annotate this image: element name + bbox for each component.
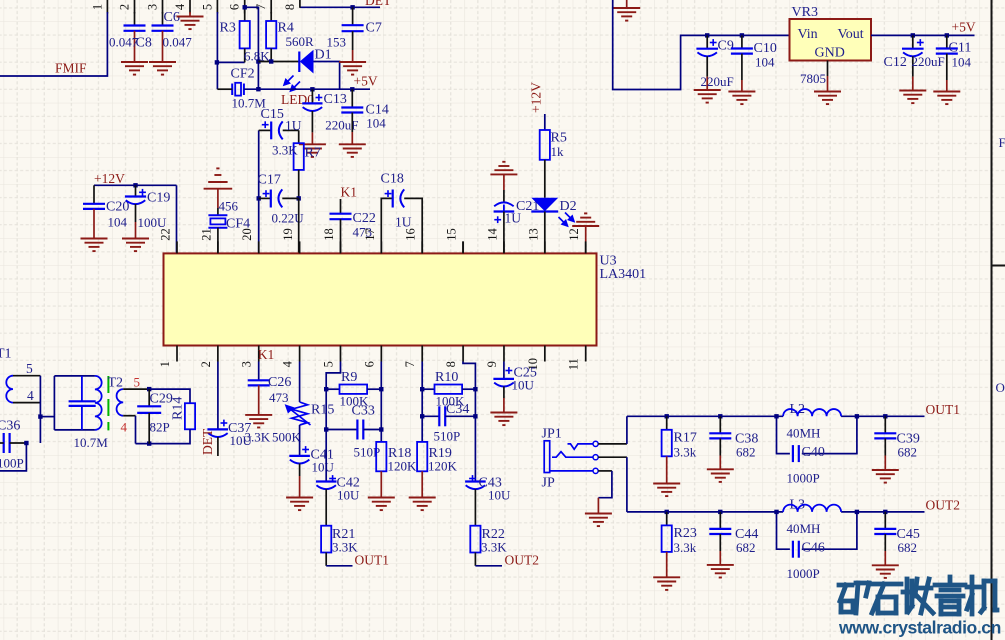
ground (C12) — [899, 91, 926, 104]
transformer T1 primary winding — [6, 376, 13, 403]
svg-text:OUT2: OUT2 — [926, 498, 961, 513]
svg-text:3: 3 — [240, 361, 254, 367]
wire pin2 down — [217, 362, 219, 429]
svg-text:12: 12 — [567, 228, 581, 241]
ground (JP1) — [585, 514, 612, 527]
svg-text:153: 153 — [327, 35, 347, 50]
svg-text:104: 104 — [366, 116, 386, 131]
ground (R18) — [368, 498, 395, 511]
svg-text:+12V: +12V — [529, 82, 544, 113]
wire input loop to VR3 — [613, 0, 790, 90]
ground (C7) — [339, 62, 366, 75]
wire CF4 top — [217, 189, 219, 208]
svg-text:+5V: +5V — [354, 74, 378, 89]
svg-text:C26: C26 — [268, 375, 291, 390]
node pin6 junction — [243, 5, 247, 9]
wire T1 left vertical — [39, 376, 41, 443]
svg-text:C15: C15 — [261, 107, 284, 122]
svg-text:C46: C46 — [802, 541, 825, 556]
ceramic filter CF4 — [208, 215, 227, 228]
JP1 sleeve line — [550, 470, 594, 472]
capacitor C46 bypass loop — [774, 510, 778, 514]
svg-text:C11: C11 — [949, 41, 972, 56]
svg-text:C17: C17 — [258, 173, 281, 188]
wire pin6 down — [380, 362, 382, 442]
capacitor C19 — [133, 183, 137, 187]
capacitor C18 — [381, 198, 392, 253]
ground (pin12, flipped) — [572, 213, 599, 226]
sheet boundary line (right edge) — [991, 0, 993, 640]
svg-text:R3: R3 — [220, 21, 236, 36]
svg-text:5: 5 — [134, 375, 141, 390]
svg-text:FMIF: FMIF — [55, 61, 87, 76]
svg-text:3.3K: 3.3K — [481, 540, 507, 555]
svg-text:JP1: JP1 — [542, 427, 562, 442]
svg-text:0.047: 0.047 — [163, 35, 193, 50]
wire VR3 GND pin — [827, 61, 829, 77]
diode D2 (LED) — [531, 198, 558, 212]
svg-text:104: 104 — [108, 215, 128, 230]
capacitor C11 — [945, 33, 949, 37]
ground (C39) — [872, 470, 899, 483]
connector JP1 body — [544, 441, 550, 473]
svg-text:K1: K1 — [258, 347, 275, 362]
ground (C19) — [122, 239, 149, 252]
capacitor C33 — [324, 427, 328, 431]
svg-text:OUT1: OUT1 — [355, 553, 390, 568]
svg-text:C6: C6 — [164, 10, 180, 25]
ground (C11) — [933, 92, 960, 105]
svg-text:456: 456 — [219, 199, 239, 214]
svg-text:2: 2 — [199, 361, 213, 367]
wire pin8 branch — [463, 362, 475, 482]
wire D2 to pin13 — [544, 212, 546, 254]
svg-text:C8: C8 — [136, 36, 152, 51]
svg-text:C34: C34 — [446, 402, 469, 417]
svg-text:OUT1: OUT1 — [926, 402, 961, 417]
wire pin4 down — [299, 362, 301, 403]
svg-text:C40: C40 — [802, 445, 825, 460]
svg-text:510P: 510P — [434, 429, 461, 444]
svg-text:1k: 1k — [551, 144, 565, 159]
svg-text:682: 682 — [736, 445, 756, 460]
svg-text:Vout: Vout — [838, 27, 864, 42]
svg-text:+12V: +12V — [94, 171, 125, 186]
svg-text:D2: D2 — [560, 199, 577, 214]
svg-text:5: 5 — [321, 361, 335, 367]
svg-text:C36: C36 — [0, 419, 20, 434]
U3 top pin numbers 22-12 — [159, 228, 582, 241]
LED D2 emission arrows — [559, 213, 575, 227]
wire to T1 tank — [40, 416, 54, 418]
svg-text:10U: 10U — [312, 460, 335, 475]
variable resistor R15 (500K) — [286, 402, 311, 425]
resistor R17 — [665, 414, 669, 418]
svg-text:LED0: LED0 — [281, 92, 314, 107]
wire pin8 to DET — [300, 6, 380, 8]
svg-text:R15: R15 — [311, 403, 334, 418]
svg-text:6: 6 — [228, 4, 242, 10]
svg-text:1: 1 — [90, 4, 104, 10]
svg-text:473: 473 — [269, 390, 289, 405]
svg-text:R17: R17 — [674, 431, 697, 446]
IC U3 LA3401 — [164, 253, 597, 345]
svg-text:7805: 7805 — [800, 71, 826, 86]
svg-text:22: 22 — [159, 228, 173, 241]
svg-text:3.3K: 3.3K — [272, 143, 298, 158]
svg-text:16: 16 — [404, 228, 418, 241]
capacitor C25 — [503, 362, 505, 379]
ground (VR3) — [814, 92, 841, 105]
ground (C26) — [245, 415, 272, 428]
svg-text:1: 1 — [158, 361, 172, 367]
diode D1 (LED) — [299, 50, 313, 74]
wire pin1 to FMIF — [0, 12, 107, 76]
svg-text:104: 104 — [952, 55, 972, 70]
svg-text:OUT2: OUT2 — [505, 553, 540, 568]
svg-text:220uF: 220uF — [325, 118, 358, 133]
svg-text:10U: 10U — [337, 488, 360, 503]
svg-text:1000P: 1000P — [787, 566, 820, 581]
svg-text:220uF: 220uF — [701, 74, 734, 89]
wire C36 down-left — [0, 443, 26, 471]
svg-text:JP: JP — [542, 476, 555, 491]
resistor R4 — [270, 12, 272, 21]
svg-text:DET: DET — [365, 0, 392, 8]
node pin5/R3 junction — [215, 60, 219, 64]
ground (R17) — [653, 484, 680, 497]
wire LED0 rail — [217, 88, 232, 90]
wire R14 bottom loop — [136, 429, 191, 443]
wire pin6 to CF2 right — [245, 7, 259, 89]
regulator VR3 7805 — [790, 19, 872, 61]
node C36 junction — [24, 441, 28, 445]
pin numbers 1-8 — [90, 3, 297, 10]
svg-text:682: 682 — [898, 540, 918, 555]
wire +12V rail — [94, 184, 177, 186]
ground (C20) — [81, 239, 108, 252]
LED D1 emission arrows — [284, 76, 300, 92]
svg-text:8: 8 — [283, 4, 297, 10]
U3 bottom pin numbers 1-11 — [158, 358, 581, 371]
svg-text:R9: R9 — [341, 370, 357, 385]
svg-text:CF2: CF2 — [231, 67, 255, 82]
wire R4 bottom to D1 — [258, 61, 299, 63]
wire JP1 tip to OUT1 rail — [598, 443, 627, 445]
svg-text:R7: R7 — [305, 146, 321, 161]
capacitor C39 — [883, 414, 887, 418]
svg-text:3.3K: 3.3K — [245, 430, 271, 445]
svg-text:40MH: 40MH — [787, 521, 821, 536]
svg-text:82P: 82P — [150, 420, 170, 435]
ground (C44) — [707, 565, 734, 578]
ground (top, under cut wire) — [626, 0, 628, 8]
svg-text:C19: C19 — [147, 191, 170, 206]
svg-text:10.7M: 10.7M — [74, 435, 109, 450]
svg-text:2: 2 — [118, 4, 132, 10]
svg-text:3.3k: 3.3k — [674, 445, 697, 460]
capacitor C13 — [310, 87, 314, 91]
svg-text:DET: DET — [200, 428, 215, 455]
svg-text:C12: C12 — [884, 55, 907, 70]
ground (C21, flipped) — [490, 162, 517, 175]
svg-text:9: 9 — [485, 361, 499, 367]
wire JP1 ring to OUT2 rail — [598, 456, 627, 458]
svg-text:18: 18 — [322, 228, 336, 241]
svg-text:C33: C33 — [352, 404, 375, 419]
capacitor C20 — [93, 185, 95, 204]
wire to OUT2 label — [475, 565, 502, 567]
JP1 contact circles — [593, 441, 598, 473]
svg-text:+5V: +5V — [952, 20, 976, 35]
wire T2 bottom corner — [135, 416, 137, 444]
svg-text:6: 6 — [362, 361, 376, 367]
svg-text:T1: T1 — [0, 347, 12, 362]
svg-text:21: 21 — [199, 228, 213, 241]
capacitor C26 — [258, 362, 260, 381]
resistor R19 — [417, 442, 427, 471]
ground (R19) — [409, 498, 436, 511]
svg-text:15: 15 — [445, 228, 459, 241]
svg-text:1000P: 1000P — [787, 471, 820, 486]
svg-text:104: 104 — [755, 55, 775, 70]
svg-text:4: 4 — [27, 388, 34, 403]
svg-text:C29: C29 — [150, 392, 173, 407]
capacitor C42 — [316, 480, 337, 482]
wire T2 top to R14 — [149, 389, 190, 403]
svg-text:C7: C7 — [366, 21, 382, 36]
capacitor C7 — [352, 7, 354, 25]
svg-text:C9: C9 — [718, 39, 734, 54]
T1 pin 5 lead — [13, 375, 40, 377]
svg-text:F: F — [999, 135, 1005, 150]
resistor R3 — [244, 8, 246, 21]
capacitor C43 — [465, 480, 486, 482]
wire OUT2 rail — [627, 511, 783, 513]
capacitor C15 — [259, 129, 272, 131]
svg-text:4: 4 — [281, 360, 295, 367]
node C29 bottom — [147, 441, 151, 445]
capacitor C6 — [162, 12, 164, 26]
ground (pin4) — [177, 17, 204, 30]
ground (R23) — [653, 577, 680, 590]
capacitor C21 — [503, 174, 505, 190]
svg-text:560R: 560R — [286, 34, 315, 49]
wire CF4 to pin21 — [217, 228, 219, 254]
svg-text:100P: 100P — [0, 456, 24, 471]
resistor R21 — [321, 526, 331, 553]
svg-text:17: 17 — [363, 228, 377, 241]
resistor R18 — [376, 442, 386, 471]
wire pin15 stub — [462, 241, 464, 253]
ground (C45) — [872, 565, 899, 578]
svg-text:GND: GND — [815, 46, 845, 61]
svg-text:120K: 120K — [388, 459, 418, 474]
resistor R9 — [324, 387, 328, 391]
T1 pin 4 lead — [13, 402, 40, 404]
wire pin5 down — [216, 12, 218, 89]
node T1 junction — [38, 414, 42, 418]
capacitor C17 — [257, 196, 261, 200]
capacitor C40 bypass loop — [774, 414, 778, 418]
svg-text:120K: 120K — [428, 459, 458, 474]
T2 core (green dashed) — [107, 376, 109, 430]
capacitor C9 — [705, 33, 709, 37]
svg-text:C18: C18 — [381, 172, 404, 187]
svg-text:5: 5 — [26, 361, 33, 376]
svg-text:T2: T2 — [108, 376, 124, 391]
ground (C41) — [286, 498, 313, 511]
wire pin20 up — [258, 130, 260, 253]
T2 bottom lead — [123, 415, 135, 417]
svg-text:10U: 10U — [512, 378, 535, 393]
capacitor C22 — [340, 199, 342, 214]
ceramic filter CF2 — [232, 83, 244, 96]
IC U2 pin stubs (cut off at top edge) — [107, 0, 271, 14]
svg-text:O: O — [996, 380, 1005, 395]
node R4/D1 wire crossing — [256, 59, 260, 63]
capacitor C29 — [148, 389, 150, 406]
svg-text:www.crystalradio.cn: www.crystalradio.cn — [838, 618, 1001, 638]
resistor R22 — [470, 526, 480, 553]
capacitor C8 — [134, 12, 136, 26]
wire pin5 branch — [326, 362, 340, 482]
resistor R14 — [185, 403, 195, 429]
T1 secondary winding — [95, 376, 102, 430]
svg-text:500K: 500K — [272, 430, 302, 445]
T1 tank capacitor — [81, 376, 83, 401]
transformer T2 winding — [117, 389, 124, 416]
ground (C25) — [490, 413, 517, 426]
U3 top pin stubs — [177, 241, 586, 253]
svg-text:D1: D1 — [315, 48, 332, 63]
capacitor C45 — [883, 510, 887, 514]
svg-text:11: 11 — [567, 358, 581, 370]
svg-text:R23: R23 — [674, 526, 697, 541]
svg-text:1U: 1U — [395, 215, 412, 230]
resistor R7 — [298, 130, 300, 143]
svg-text:40MH: 40MH — [787, 426, 821, 441]
node C29 top — [147, 387, 151, 391]
ground (C38) — [707, 469, 734, 482]
svg-text:Vin: Vin — [798, 27, 818, 42]
JP1 ring contact spring — [552, 452, 593, 458]
wire pin12 — [585, 226, 587, 242]
svg-text:0.047: 0.047 — [109, 35, 139, 50]
svg-text:13: 13 — [526, 228, 540, 241]
wire pin7 down — [421, 362, 423, 442]
ground (top-right) — [613, 8, 640, 21]
node R4/D1 junction — [269, 59, 273, 63]
wire pin19 — [298, 198, 300, 253]
svg-text:20: 20 — [240, 228, 254, 241]
ground (C14) — [339, 144, 366, 157]
ground (C6) — [149, 62, 176, 75]
node C7 junction — [350, 5, 354, 9]
capacitor C44 — [718, 510, 722, 514]
svg-text:1U: 1U — [505, 211, 522, 226]
svg-text:682: 682 — [736, 540, 756, 555]
svg-text:R10: R10 — [435, 370, 458, 385]
capacitor C41 — [289, 455, 310, 457]
svg-text:14: 14 — [485, 228, 499, 241]
capacitor C38 — [718, 414, 722, 418]
wire pin4 to ground — [189, 12, 191, 17]
svg-text:100U: 100U — [138, 215, 168, 230]
ground (CF4, flipped spread) — [204, 168, 233, 188]
svg-text:3: 3 — [146, 4, 160, 10]
svg-text:LA3401: LA3401 — [600, 267, 647, 282]
T1 tank frame — [53, 376, 55, 430]
T2 top lead — [123, 388, 149, 390]
svg-text:5: 5 — [200, 4, 214, 10]
node CF2 right junction — [256, 87, 260, 91]
svg-text:4: 4 — [121, 420, 128, 435]
watermark CJK logo — [839, 577, 997, 614]
ground (C10) — [728, 92, 755, 105]
wire R3 bottom to pin5 — [217, 61, 245, 63]
wire R15 to C41 — [299, 425, 301, 456]
sheet boundary tick — [992, 265, 1005, 267]
capacitor C12 — [911, 33, 915, 37]
svg-text:C20: C20 — [106, 200, 129, 215]
svg-text:VR3: VR3 — [792, 5, 818, 20]
wire VR3 output rail — [871, 34, 975, 36]
capacitor C37 — [207, 428, 228, 430]
resistor R23 — [665, 510, 669, 514]
svg-text:220uF: 220uF — [912, 54, 945, 69]
svg-text:19: 19 — [281, 228, 295, 241]
wire to OUT1 label — [326, 565, 352, 567]
resistor R5 — [544, 114, 546, 130]
ground (C8) — [121, 62, 148, 75]
resistor R10 — [420, 387, 424, 391]
svg-text:10U: 10U — [488, 488, 511, 503]
ground (C9) — [694, 90, 721, 103]
capacitor C10 — [740, 33, 744, 37]
svg-text:3.3k: 3.3k — [674, 540, 697, 555]
wire OUT1 rail — [627, 415, 783, 417]
capacitor C14 — [350, 87, 354, 91]
svg-text:8: 8 — [444, 361, 458, 367]
svg-text:C13: C13 — [324, 92, 347, 107]
U3 bottom pin stubs — [177, 346, 586, 362]
wire JP1 sleeve to ground — [598, 470, 612, 472]
svg-text:682: 682 — [898, 445, 918, 460]
ground (C13) — [299, 144, 326, 157]
JP1 tip contact — [568, 444, 594, 449]
capacitor C34 — [420, 414, 424, 418]
wire D1 to LED0 rail — [314, 62, 340, 90]
svg-text:K1: K1 — [341, 184, 358, 199]
svg-text:7: 7 — [403, 361, 417, 367]
wire pin22 to +12V — [176, 185, 178, 253]
